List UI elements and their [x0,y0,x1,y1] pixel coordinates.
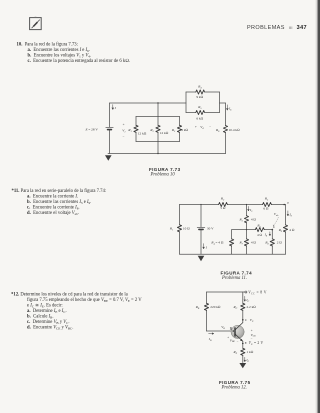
svg-text:+: + [251,328,253,332]
wire: top rail [207,291,245,293]
svg-text:RB: RB [195,305,200,310]
wire: stub pair to right branch [220,102,226,104]
current arrow I [112,105,114,110]
wire: RB branch lower stub [206,310,208,331]
svg-text:a: a [287,200,289,204]
resistor R1 12k zigzag [134,125,138,132]
svg-text:−: − [209,125,211,129]
emitter arrowhead [240,339,243,341]
svg-text:R4: R4 [197,84,202,89]
wire: left branch above battery [109,103,111,127]
svg-text:I: I [205,246,208,250]
wire: mid rail with R6 gap [232,229,273,231]
svg-text:4 Ω: 4 Ω [251,241,257,245]
svg-text:R9: R9 [278,228,283,233]
svg-text:IE: IE [245,358,249,363]
svg-text:9 kΩ: 9 kΩ [196,95,203,99]
wire: middle branch R7 to bottom rail [246,246,248,255]
svg-text:V4: V4 [200,125,204,130]
ground symbol [105,155,112,161]
svg-text:Vab: Vab [274,212,279,217]
node dot C [242,319,244,321]
resistor R5 6k zigzag [196,110,205,114]
wire: resistor box outline bottom side [136,141,180,143]
svg-text:I9: I9 [289,213,293,218]
svg-text:5 Ω: 5 Ω [220,206,226,210]
svg-text:−: − [123,135,125,139]
resistor R6 10.4k zigzag [223,126,227,133]
svg-text:I: I [114,106,117,110]
wire: right branch above R6 [225,103,227,126]
problem 11 text [12,188,107,194]
current arrow I [203,244,205,249]
page right-edge shadow [315,0,320,413]
node dot B [233,330,235,332]
svg-text:R3: R3 [239,218,244,223]
svg-text:RC: RC [233,305,238,310]
resistor R7 4 ohm zigzag [244,239,248,246]
svg-text:R6: R6 [256,223,261,228]
problem 10 text [17,42,78,48]
junction dot middle branch top [246,204,247,205]
svg-text:12 kΩ: 12 kΩ [160,131,169,135]
svg-text:−: − [237,340,239,344]
svg-text:VCC = 8 V: VCC = 8 V [248,291,267,296]
wire: RB branch upper stub [206,292,208,303]
svg-text:I3: I3 [249,208,253,213]
resistor R6 4 ohm zigzag [255,228,264,232]
svg-text:R6: R6 [215,128,220,133]
wire: top rail from source to parallel pair [110,102,187,104]
wire: center tap down from top rail to resistor box [157,103,159,117]
caption figure 7.73 [149,167,180,172]
svg-text:VE = 2 V: VE = 2 V [249,341,264,346]
wire: resistor box outline top side [136,116,180,118]
wire: parallel-pair left edge [185,92,187,113]
wire: middle branch top rail to R3 [246,205,248,216]
wire: pair bottom side stubs around R5 [186,112,220,114]
svg-text:4 Ω: 4 Ω [257,233,263,237]
FIGURE 7.75 [190,286,300,371]
wire: right branch below R6 [225,133,227,154]
svg-text:R2: R2 [149,128,154,133]
svg-text:R5: R5 [264,197,269,202]
svg-text:R8: R8 [264,241,269,246]
svg-text:3 kΩ: 3 kΩ [181,128,188,132]
svg-text:VC: VC [250,318,254,323]
svg-text:VB: VB [221,325,225,330]
wire: RE to ground [242,355,244,363]
resistor R3 3k zigzag [177,125,181,132]
resistor RB 220k zigzag [204,303,208,310]
wire: center tap from resistor box to bottom rail [157,142,159,154]
battery E 30 V [197,227,205,229]
junction dot middle branch mid rail [246,229,247,230]
svg-text:30 V: 30 V [207,227,214,231]
node dot top center tap [157,102,158,103]
wire: left edge stubs around R1 [179,205,181,255]
svg-text:I6: I6 [228,107,232,112]
voltage Vab dashed arrow [273,217,278,226]
svg-text:4 Ω: 4 Ω [251,218,257,222]
caption figure 7.75 [219,380,250,385]
wire: battery branch [200,205,202,255]
wire: box right edge stubs around R3 [179,117,181,142]
ground symbol [198,256,205,261]
svg-text:2.2 kΩ: 2.2 kΩ [247,305,257,309]
wire: bottom rail [108,153,226,155]
resistor R2 5 ohm zigzag [219,202,228,206]
resistor R9 4 ohm zigzag [283,225,287,232]
caption figure 7.74 [221,271,252,276]
node b dot [272,229,274,231]
svg-text:R1: R1 [127,128,131,133]
wire: top rail segments around R2 and R5 [180,204,286,206]
wire: left branch below battery [109,130,111,154]
svg-text:IB: IB [208,337,212,342]
resistor R2 12k zigzag [156,125,160,132]
current arrow I6 [226,105,228,110]
logo: pencil-square icon top-left [25,14,43,31]
svg-text:6 kΩ: 6 kΩ [196,117,203,121]
resistor R8 2 ohm zigzag [270,239,274,246]
svg-text:220 kΩ: 220 kΩ [210,305,221,309]
svg-text:1 kΩ: 1 kΩ [247,350,254,354]
junction dot battery top [200,204,201,205]
wire: middle branch R3 to mid rail [246,223,248,230]
svg-text:E = 28 V: E = 28 V [85,127,99,131]
resistor R5 6 ohm zigzag [263,202,272,206]
svg-text:C: C [245,318,248,322]
resistor RC 2.2k zigzag [241,303,245,310]
transistor Q1 body [231,325,244,338]
wire: box center stubs around R2 [157,117,159,142]
wire: box left edge stubs around R1 [135,117,137,142]
wire: R4 branch from mid rail corner down [231,230,233,255]
svg-text:RE: RE [233,350,238,355]
svg-text:+: + [123,122,125,126]
svg-text:R3: R3 [171,128,176,133]
supply terminal circle [245,291,247,293]
wire: middle branch mid rail to R7 [246,230,248,239]
transistor emitter lead [235,334,243,341]
node a dot [283,204,285,206]
wire: emitter node to RE [242,341,244,348]
svg-text:10 Ω: 10 Ω [183,227,190,231]
svg-text:R2: R2 [220,197,225,202]
svg-text:12 kΩ: 12 kΩ [138,132,147,136]
FIGURE 7.74 [165,192,300,270]
svg-text:6 Ω: 6 Ω [263,206,269,210]
wire: RC branch upper stub [242,292,244,303]
resistor RE 1k zigzag [241,348,245,355]
wire: bottom rail [180,253,286,255]
transistor collector lead [235,323,243,330]
current arrow I9 [287,211,289,216]
svg-text:R7: R7 [239,241,244,246]
svg-text:R1: R1 [169,227,173,232]
svg-text:I8: I8 [264,233,268,238]
current arrow I3 [248,206,250,211]
running head [247,25,307,31]
resistor R3 4 ohm zigzag [244,216,248,223]
resistor R4 4 ohm zigzag [230,239,234,246]
battery E [106,127,113,129]
current arrow IC [244,296,246,301]
resistor R1 10 ohm zigzag [177,225,181,232]
node dot E [242,343,244,345]
svg-text:R5: R5 [197,105,202,110]
svg-text:b: b [273,225,275,229]
wire: pair top side stubs around R4 [186,91,220,93]
resistor R4 9k zigzag [196,90,205,94]
svg-text:V1: V1 [122,128,125,133]
svg-text:R4 = 4 Ω: R4 = 4 Ω [210,241,223,246]
transistor base bar [234,328,236,336]
svg-text:E: E [245,341,247,345]
FIGURE 7.73 [80,80,260,175]
wire: right edge stubs around R9 [285,205,287,255]
wire: R8 branch below node b [271,230,273,255]
svg-text:10.4 kΩ: 10.4 kΩ [229,128,240,132]
current arrow IE [244,357,246,362]
problem 12 text [11,292,128,298]
svg-text:2 Ω: 2 Ω [277,241,283,245]
wire: parallel-pair right edge [219,92,221,113]
wire: RC branch lower stub to collector node [242,310,244,323]
wire: base lead [207,330,236,332]
svg-text:IC: IC [245,298,249,303]
node dot bottom center tap [157,153,158,154]
svg-text:+: + [195,125,197,129]
current arrow IB [209,333,214,335]
ground symbol [239,363,246,368]
svg-text:VBE: VBE [230,338,236,343]
svg-text:4 Ω: 4 Ω [289,228,295,232]
current arrow I8 [269,232,271,236]
